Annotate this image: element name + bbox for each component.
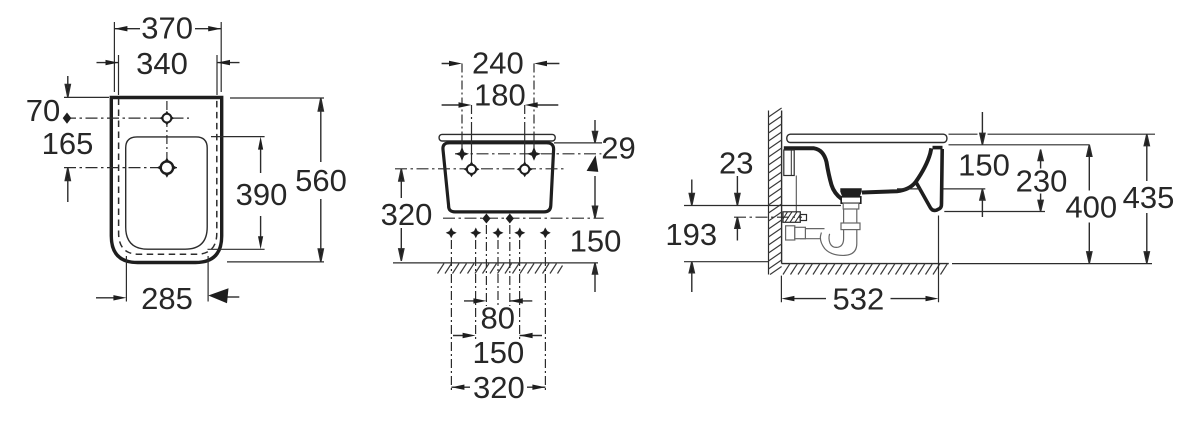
svg-text:23: 23 <box>719 146 753 181</box>
bidet rim slab <box>787 134 947 142</box>
dimension 320 bottom <box>451 370 545 405</box>
tank bottom centerline <box>443 217 604 219</box>
svg-text:320: 320 <box>473 370 525 405</box>
dimension 165 up arrow <box>42 126 94 202</box>
extension dashdot below star 2 <box>476 240 520 340</box>
dimension 400 <box>1065 145 1117 263</box>
rim underside right blob <box>933 146 943 150</box>
reference line 2 rim bottom <box>949 144 1090 146</box>
extension line floor right <box>952 263 1152 265</box>
svg-text:240: 240 <box>472 46 524 81</box>
double arrowhead diamond at centerline 1 <box>63 113 72 124</box>
svg-text:532: 532 <box>833 282 885 317</box>
lower hole left <box>464 161 480 177</box>
floor line side view <box>782 263 949 265</box>
svg-text:150: 150 <box>473 335 525 370</box>
bidet front inner dashed ceramic line <box>119 99 217 255</box>
dimension 340 extension lines <box>119 55 218 95</box>
dimension 532 extension lines <box>781 216 938 303</box>
floor hatching middle view <box>438 264 563 274</box>
right support leg <box>916 149 942 210</box>
hole 1 (tap hole) <box>160 111 175 126</box>
wall hatching <box>769 108 782 275</box>
drain diamond left at tank bottom <box>482 214 490 224</box>
reference line A underside <box>684 205 841 207</box>
dimension 532 <box>781 282 938 317</box>
trap outlet pipe <box>800 229 825 239</box>
bracket centerline dashdot <box>734 216 802 218</box>
drain hub dark flange <box>840 188 861 197</box>
backwall channel inner line <box>790 150 792 176</box>
trap nut <box>841 223 860 230</box>
centerline lower holes <box>395 168 565 170</box>
dimension 150 right side <box>570 176 622 292</box>
drain diamond right at tank bottom <box>506 214 514 224</box>
dimension 560 extension lines <box>227 98 324 262</box>
dimension 23 <box>719 146 753 241</box>
bowl underside and right interior thick line <box>862 148 931 192</box>
dimension 80 <box>464 298 532 335</box>
floor hatching side view <box>783 264 948 275</box>
wall left edge line <box>768 111 770 275</box>
svg-text:29: 29 <box>601 131 635 166</box>
drain collar <box>843 203 859 209</box>
extension dashdot below star 3 center <box>497 240 499 308</box>
dimension 29 <box>587 120 636 172</box>
tank body outline <box>443 143 554 212</box>
svg-text:150: 150 <box>570 224 622 259</box>
dimension 340 <box>97 46 240 81</box>
floor anchor star 4 <box>514 228 525 239</box>
svg-text:70: 70 <box>26 93 60 128</box>
lower hole right <box>517 161 533 177</box>
trap tailpiece upper <box>844 209 857 223</box>
vertical centerline between holes <box>166 101 168 160</box>
svg-text:230: 230 <box>1016 164 1068 199</box>
bidet front outer shell outline <box>111 98 221 263</box>
trap wall flange <box>786 226 795 240</box>
extension line left lower hole <box>471 105 473 125</box>
bidet front bowl rim inner rect <box>126 137 208 249</box>
dimension 370 extension lines <box>114 22 221 92</box>
svg-text:320: 320 <box>381 197 433 232</box>
extension line left upper hole <box>461 64 463 135</box>
centerline through hole 2 <box>64 167 177 169</box>
dimension 70 top reference line <box>64 96 109 98</box>
dimension 390 extension lines <box>208 137 265 250</box>
floor line middle view <box>393 262 598 264</box>
svg-text:435: 435 <box>1123 180 1175 215</box>
dimension 180 <box>442 78 559 113</box>
dimension 150 side view <box>958 112 1010 217</box>
svg-text:400: 400 <box>1065 190 1117 225</box>
dimension 370 <box>114 11 221 46</box>
dimension 230 <box>1016 150 1068 212</box>
svg-text:80: 80 <box>481 301 515 336</box>
reference line 3 bowl bottom <box>897 188 985 190</box>
svg-text:165: 165 <box>42 126 94 161</box>
extension dashdot below drain diamonds <box>486 225 509 306</box>
dimension 390 <box>236 137 288 250</box>
wall face line <box>781 111 783 264</box>
dimension 285 <box>96 281 239 316</box>
centerline upper holes <box>455 153 601 155</box>
floor anchor star 2 <box>470 228 481 239</box>
reference line support bottom <box>944 211 1045 213</box>
dimension 29 top reference line <box>554 142 602 144</box>
trap U-bend outer <box>820 233 856 256</box>
hole 2 (drain hole) <box>157 157 177 177</box>
bowl back and left interior thick line <box>784 148 845 201</box>
trap flange nut <box>795 227 806 238</box>
reference line 1 rim top <box>949 133 1156 135</box>
svg-text:285: 285 <box>141 281 193 316</box>
dimension 435 <box>1123 134 1175 263</box>
upper hole star left <box>455 147 469 161</box>
centerline through hole 1 <box>64 117 189 119</box>
trap U-bend inner <box>829 234 844 248</box>
fixing bracket hatched <box>783 212 807 223</box>
dimension 285 extension lines <box>126 256 208 302</box>
floor anchor star 5 <box>540 228 551 239</box>
upper hole star right <box>527 147 541 161</box>
dimension 240 <box>442 46 560 81</box>
svg-text:560: 560 <box>295 163 347 198</box>
svg-text:390: 390 <box>236 177 288 212</box>
extension line right lower hole <box>524 105 526 125</box>
floor anchor star 1 <box>446 228 457 239</box>
extension line right upper hole <box>533 64 535 135</box>
tank rim plate <box>439 134 555 141</box>
dimension 193 <box>665 180 717 293</box>
dimension 320 left side <box>381 169 433 261</box>
drain hub ring <box>841 197 861 203</box>
trap tailpiece lower <box>844 230 857 239</box>
dimension 150 bottom <box>453 333 542 370</box>
backwall mounting channel <box>784 150 794 176</box>
reference line C near floor left <box>684 261 768 263</box>
extension dashdot below star 1 <box>451 240 545 392</box>
drop line to bracket <box>795 176 797 212</box>
svg-text:370: 370 <box>141 11 193 46</box>
svg-text:340: 340 <box>136 46 188 81</box>
svg-text:150: 150 <box>958 148 1010 183</box>
svg-text:180: 180 <box>474 78 526 113</box>
dimension 70 down arrow <box>26 76 71 128</box>
svg-text:193: 193 <box>665 217 717 252</box>
dimension 560 <box>295 98 347 262</box>
floor anchor star 3 <box>493 228 504 239</box>
